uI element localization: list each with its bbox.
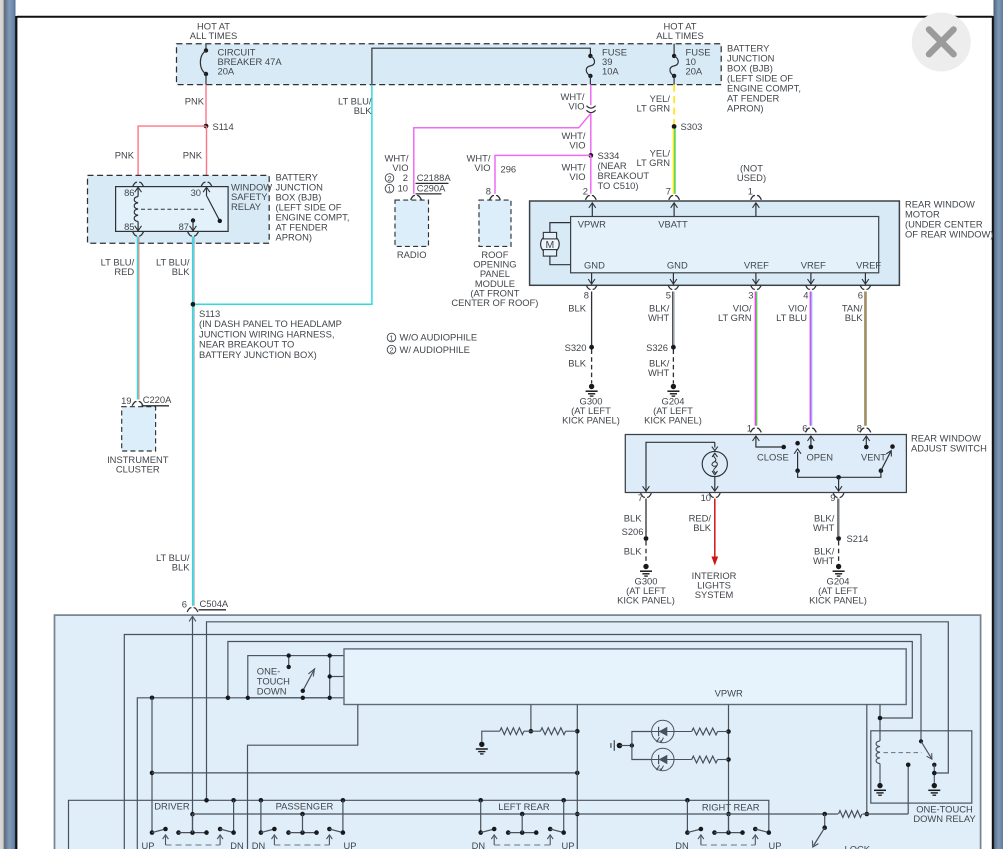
right scrollbar strip: [994, 0, 1003, 849]
svg-text:RIGHT REAR: RIGHT REAR: [702, 802, 760, 813]
connector C504A hook: [187, 608, 198, 612]
svg-text:10A: 10A: [602, 66, 619, 77]
svg-text:OF REAR WINDOW): OF REAR WINDOW): [905, 229, 994, 240]
lamp feed wire: [646, 442, 711, 492]
inline connector on WHT/VIO: [586, 106, 595, 113]
svg-text:9: 9: [830, 492, 835, 503]
svg-text:6: 6: [182, 599, 187, 610]
svg-text:DOWN RELAY: DOWN RELAY: [913, 813, 976, 824]
wire VPWR to relay coil: [879, 705, 881, 741]
wire one-touch bus to relay coil (line d): [228, 642, 912, 719]
wire BLK/WHT pin 5: [672, 292, 674, 346]
svg-text:4: 4: [803, 290, 808, 301]
pin 30 connector hook: [201, 182, 212, 186]
svg-text:6: 6: [802, 423, 807, 434]
hooks above adjust switch: [751, 428, 762, 432]
node S326: [671, 345, 676, 350]
pin 86 arrow: [135, 187, 142, 192]
wire WHT/VIO branch to roof module: [495, 155, 591, 193]
switch pin 8 arrow: [863, 436, 870, 441]
battery junction box dashed outline (top): [177, 44, 722, 85]
motor pin 8 arrow: [591, 273, 593, 284]
svg-text:S206: S206: [622, 526, 644, 537]
right rear switch: [686, 800, 688, 832]
svg-text:OPEN: OPEN: [807, 452, 834, 463]
node S320: [589, 345, 594, 350]
rear window motor outer box: [530, 201, 900, 285]
svg-text:S214: S214: [847, 533, 869, 544]
motor feed bus: [193, 813, 909, 815]
node S334: [588, 153, 593, 158]
svg-text:LT GRN: LT GRN: [718, 312, 752, 323]
pin 30 arrow: [203, 187, 210, 192]
switch pin 6 arrow: [808, 436, 815, 441]
svg-text:20A: 20A: [218, 66, 235, 77]
svg-text:UP: UP: [142, 841, 155, 849]
resistor after D2: [674, 759, 692, 761]
wire WHT/VIO S334 to pin 2: [590, 155, 592, 193]
relay coil ground: [877, 783, 882, 788]
svg-text:8: 8: [857, 423, 862, 434]
note circled 2 pin 2 C2188A: [385, 174, 394, 183]
ground G204 (switch): [836, 564, 841, 569]
svg-text:S326: S326: [646, 342, 668, 353]
svg-text:VIO: VIO: [474, 162, 490, 173]
svg-text:10: 10: [398, 183, 408, 194]
svg-text:WHT: WHT: [813, 522, 835, 533]
lamp to pin 10: [714, 477, 716, 491]
svg-text:1: 1: [387, 185, 391, 194]
node S214: [836, 536, 841, 541]
node S206: [644, 536, 649, 541]
svg-text:S114: S114: [213, 121, 234, 132]
sense resistor R left: [500, 728, 524, 735]
svg-text:3: 3: [748, 290, 753, 301]
wire TAN/BLK pin 6: [864, 292, 866, 426]
relay coil: [134, 197, 138, 222]
node S114: [204, 124, 209, 129]
connector hook radio: [411, 196, 422, 200]
one-touch feed bus: [137, 698, 344, 849]
svg-text:BLK: BLK: [693, 522, 711, 533]
one-touch box to VPWR links: [330, 655, 344, 657]
svg-text:1: 1: [748, 186, 753, 197]
connector hook roof module: [490, 196, 501, 200]
svg-text:PASSENGER: PASSENGER: [276, 801, 334, 812]
relay switch blade: [207, 197, 219, 221]
motor pin 5 arrow: [672, 273, 674, 284]
svg-text:RED: RED: [114, 266, 134, 277]
svg-text:LT BLU: LT BLU: [776, 312, 807, 323]
one-touch down switch box: [248, 656, 330, 698]
note W/O AUDIOPHILE: [387, 333, 396, 342]
svg-text:BLK: BLK: [172, 561, 190, 572]
svg-text:UP: UP: [562, 841, 575, 849]
roof opening panel module dashed box: [479, 200, 511, 246]
svg-text:C290A: C290A: [417, 183, 446, 194]
VENT movable blade: [879, 468, 884, 473]
relay dashed actuation link: [141, 208, 204, 210]
ground G300 (switch): [643, 564, 648, 569]
node S303: [672, 124, 677, 129]
switch pin 1 arrow and CLOSE contact: [753, 436, 760, 441]
svg-text:87: 87: [179, 221, 189, 232]
pin 87 exit hook: [188, 232, 199, 236]
LED D1: [652, 720, 674, 742]
svg-text:CENTER OF ROOF): CENTER OF ROOF): [451, 297, 538, 308]
lock switch: [824, 814, 826, 828]
pin 85 arrow: [137, 222, 139, 232]
svg-text:LEFT REAR: LEFT REAR: [498, 801, 550, 812]
page border frame: [17, 16, 993, 18]
svg-text:85: 85: [124, 221, 134, 232]
wire dashed to G300 switch: [645, 541, 647, 562]
wire VPWR to lock resistor: [866, 705, 868, 815]
svg-text:M: M: [546, 239, 555, 251]
wire BLK pin 8: [591, 292, 593, 346]
illumination feed symbol: [610, 743, 612, 748]
svg-text:BLK: BLK: [568, 303, 586, 314]
wire VPWR to left rear column: [576, 705, 578, 849]
svg-text:WHT: WHT: [648, 367, 670, 378]
svg-text:VPWR: VPWR: [578, 219, 606, 230]
crossover bus to resistor network: [152, 772, 577, 774]
wire YEL dashed from fuse 10: [673, 85, 675, 125]
close button X: [912, 13, 971, 72]
svg-text:5: 5: [666, 290, 671, 301]
note W/ AUDIOPHILE: [387, 345, 396, 354]
svg-text:W/O AUDIOPHILE: W/O AUDIOPHILE: [400, 332, 478, 343]
motor pin 4 arrow: [810, 273, 812, 284]
connector hook motor pin 1: [751, 196, 762, 200]
svg-text:7: 7: [666, 186, 671, 197]
one-touch down relay box: [871, 731, 972, 803]
svg-text:BLK: BLK: [624, 513, 642, 524]
resistor after D1: [674, 731, 692, 733]
svg-text:LT GRN: LT GRN: [636, 102, 670, 113]
driver UP riser: [151, 698, 153, 833]
relay dashed link: [884, 752, 922, 754]
svg-text:VREF: VREF: [801, 260, 826, 271]
svg-text:BLK: BLK: [172, 266, 190, 277]
svg-text:ADJUST SWITCH: ADJUST SWITCH: [911, 443, 987, 454]
wire dashed to G204 switch: [838, 541, 840, 562]
wire RED/BLK pin 10: [714, 499, 716, 558]
svg-text:KICK PANEL): KICK PANEL): [644, 415, 702, 426]
svg-text:VIO: VIO: [569, 140, 585, 151]
lamp drop arrow: [711, 441, 715, 443]
svg-text:DN: DN: [230, 841, 243, 849]
wire to relay blade contact (line c): [124, 635, 921, 849]
svg-text:8: 8: [584, 290, 589, 301]
svg-text:GND: GND: [584, 260, 605, 271]
relay blade (one-touch): [919, 739, 923, 743]
one-touch blade: [303, 668, 315, 690]
svg-text:VREF: VREF: [744, 260, 769, 271]
svg-text:SYSTEM: SYSTEM: [695, 589, 734, 600]
svg-text:VPWR: VPWR: [715, 688, 743, 699]
svg-text:DN: DN: [472, 841, 485, 849]
motor pin 7 arrow: [671, 203, 678, 208]
wire PNK to relay pin 30: [206, 126, 208, 181]
svg-text:APRON): APRON): [276, 232, 312, 243]
arrow to interior lights: [711, 557, 718, 566]
svg-text:RELAY: RELAY: [231, 201, 262, 212]
sense resistor R right: [540, 728, 565, 735]
svg-text:RADIO: RADIO: [397, 249, 427, 260]
svg-text:S320: S320: [565, 342, 587, 353]
svg-text:2: 2: [387, 174, 391, 183]
svg-text:BLK: BLK: [845, 312, 863, 323]
svg-text:2: 2: [403, 172, 408, 183]
motor pin 1 arrow: [753, 203, 760, 208]
svg-text:7: 7: [638, 492, 643, 503]
circuit breaker 47A symbol: [204, 48, 208, 52]
svg-text:KICK PANEL): KICK PANEL): [617, 595, 675, 606]
fuse 39 10A symbol: [588, 54, 592, 58]
svg-text:19: 19: [121, 395, 131, 406]
wire YEL/LT GRN to pin 7: [672, 129, 674, 194]
svg-text:1: 1: [389, 333, 393, 342]
wire resistor centre: [524, 730, 541, 732]
relay contact ground: [932, 783, 937, 788]
svg-text:BLK: BLK: [568, 358, 586, 369]
svg-text:UP: UP: [344, 841, 357, 849]
svg-text:ALL TIMES: ALL TIMES: [656, 30, 703, 41]
svg-text:S303: S303: [681, 121, 703, 132]
switch common bus: [798, 471, 881, 478]
svg-text:PNK: PNK: [115, 150, 135, 161]
driver switch: [233, 800, 235, 832]
pin 87 contact and arrow: [191, 218, 195, 222]
wire resistor to left rear column: [566, 730, 578, 732]
relay coil (one-touch): [876, 741, 880, 764]
svg-text:TO C510): TO C510): [598, 180, 639, 191]
motor pin 6 arrow: [864, 273, 866, 284]
switch pin 9 arrow: [838, 477, 840, 491]
LED branch wires: [632, 732, 652, 760]
svg-text:2: 2: [389, 346, 393, 355]
svg-text:BLK: BLK: [354, 105, 372, 116]
illumination lamp: [702, 451, 727, 476]
svg-text:W/ AUDIOPHILE: W/ AUDIOPHILE: [400, 344, 470, 355]
wire dashed to G204: [672, 350, 674, 384]
wire stub into circuit breaker: [205, 44, 207, 51]
connector hook motor pin 2: [585, 196, 596, 200]
hooks below adjust switch: [641, 493, 652, 497]
hooks below motor: [586, 285, 597, 289]
wire WHT/VIO from fuse 39: [590, 85, 592, 106]
svg-text:VREF: VREF: [856, 260, 881, 271]
radio dashed box: [395, 200, 429, 246]
svg-text:DRIVER: DRIVER: [154, 801, 190, 812]
svg-text:PNK: PNK: [185, 96, 205, 107]
svg-text:WHT: WHT: [648, 312, 670, 323]
svg-text:BATTERY JUNCTION BOX): BATTERY JUNCTION BOX): [199, 349, 317, 360]
svg-text:30: 30: [191, 187, 201, 198]
wire LT BLU/RED relay to cluster: [137, 237, 139, 400]
svg-text:KICK PANEL): KICK PANEL): [562, 415, 620, 426]
wire VPWR to passenger column: [248, 705, 358, 849]
fuse 10 20A symbol: [672, 54, 676, 58]
svg-text:DOWN: DOWN: [257, 685, 287, 696]
svg-text:UP: UP: [769, 841, 782, 849]
one-touch fixed contact: [288, 656, 290, 667]
svg-text:APRON): APRON): [727, 103, 763, 114]
svg-text:LOCK: LOCK: [845, 844, 871, 849]
instrument cluster dashed box: [122, 407, 156, 451]
wire PNK branch to relay pin 86: [138, 126, 206, 181]
wire stub into fuse 10: [673, 44, 675, 56]
svg-text:BLK: BLK: [624, 546, 642, 557]
wire LT BLU/BLK S113 to BJB: [195, 85, 372, 305]
motor pin 3 arrow: [755, 273, 757, 284]
motor M symbol: [541, 235, 560, 254]
relay inner box: [116, 187, 229, 232]
svg-text:C220A: C220A: [143, 394, 172, 405]
connector hook motor pin 7: [669, 196, 680, 200]
svg-text:C2188A: C2188A: [417, 172, 452, 183]
svg-text:C504A: C504A: [200, 598, 229, 609]
passenger switch: [260, 800, 262, 832]
VPWR supply box: [344, 649, 906, 705]
svg-text:VBATT: VBATT: [658, 219, 688, 230]
wire LT BLU/BLK relay to S113: [192, 237, 194, 606]
motor pin 2 arrow: [589, 203, 596, 208]
svg-text:KICK PANEL): KICK PANEL): [809, 595, 867, 606]
svg-text:DN: DN: [675, 841, 688, 849]
wire PNK from circuit breaker: [205, 85, 207, 127]
svg-text:DN: DN: [252, 841, 265, 849]
svg-text:ALL TIMES: ALL TIMES: [190, 30, 237, 41]
wire feed bus to relay contact: [907, 765, 909, 814]
wire VPWR to right rear column: [728, 705, 730, 833]
svg-text:20A: 20A: [686, 66, 703, 77]
ground G204 (motor): [671, 384, 676, 389]
svg-text:USED): USED): [737, 172, 766, 183]
left rear switch: [480, 800, 482, 832]
svg-text:VENT: VENT: [861, 452, 886, 463]
svg-text:GND: GND: [667, 260, 688, 271]
note circled 1 pin 10 C290A: [385, 184, 394, 193]
wire BLK/WHT pin 9: [837, 499, 839, 537]
wire WHT/VIO to S334: [590, 113, 592, 155]
svg-text:8: 8: [486, 186, 491, 197]
svg-text:CLUSTER: CLUSTER: [116, 464, 160, 475]
wire VIO/LT GRN pin 3: [754, 292, 756, 426]
sense resistor to ground: [482, 731, 500, 741]
svg-text:10: 10: [701, 492, 711, 503]
node S113: [191, 302, 196, 307]
wire bus inside BJB to fuse 39: [372, 48, 591, 84]
window switch bus: [69, 800, 769, 849]
rear window motor inner box: [571, 217, 879, 273]
lock resistor: [838, 809, 863, 819]
wire WHT/VIO branch to radio: [414, 113, 591, 193]
svg-text:86: 86: [124, 187, 134, 198]
wire BLK pin 7: [645, 499, 647, 537]
wire BLK dashed to G300: [591, 350, 593, 384]
wire relay common to switch bus (line b): [207, 622, 949, 800]
pin 85 exit hook: [133, 232, 144, 236]
ground G300 (motor): [589, 384, 594, 389]
power window circuit outer box: [55, 615, 981, 849]
svg-text:6: 6: [858, 290, 863, 301]
wire VPWR to resistor centre: [530, 705, 532, 732]
rear window adjust switch box: [625, 435, 906, 493]
window safety relay dashed box: [88, 175, 270, 243]
pin 86 connector hook: [133, 182, 144, 186]
wire VIO/LT BLU pin 4: [809, 292, 811, 426]
wire from C504A into box: [192, 616, 194, 832]
svg-text:2: 2: [583, 186, 588, 197]
svg-text:WHT: WHT: [813, 555, 835, 566]
svg-text:VIO: VIO: [569, 171, 585, 182]
svg-text:PNK: PNK: [183, 150, 203, 161]
left scrollbar strip: [0, 0, 16, 849]
connector C220A hook: [132, 402, 143, 406]
OPEN movable blade: [795, 441, 800, 446]
svg-text:CLOSE: CLOSE: [757, 452, 789, 463]
svg-text:VIO: VIO: [568, 100, 584, 111]
svg-text:296: 296: [501, 164, 517, 175]
LED D2: [652, 748, 674, 770]
svg-text:LT GRN: LT GRN: [636, 157, 670, 168]
